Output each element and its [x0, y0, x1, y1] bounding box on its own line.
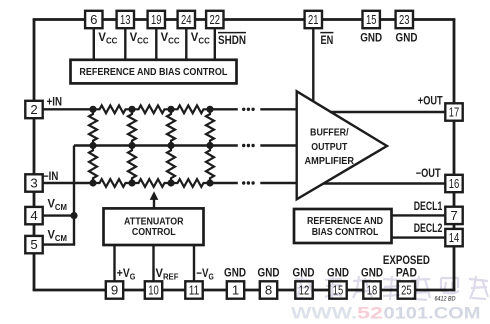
wire attenuator to pin 11: [193, 245, 195, 290]
svg-text:DECL2: DECL2: [414, 222, 443, 235]
pin 19 (top): [148, 11, 165, 28]
wire pin 19 to reference box: [155, 20, 157, 61]
svg-text:7: 7: [450, 208, 457, 223]
wire pin 4 VCM: [34, 214, 74, 216]
svg-text:VCC: VCC: [191, 30, 210, 46]
node middle row col3: [167, 142, 174, 149]
label SHDN: [218, 33, 246, 47]
wire top row into amplifier: [260, 108, 296, 110]
resistor R3 (top row): [171, 105, 210, 113]
svg-text:52: 52: [357, 305, 383, 323]
pin 13 (top): [117, 11, 134, 28]
svg-text:CONTROL: CONTROL: [132, 227, 176, 238]
wire -OUT: [323, 182, 454, 184]
svg-text:9: 9: [111, 282, 118, 297]
wire middle row: [74, 144, 238, 146]
wire pin 21 EN to amplifier: [312, 20, 314, 103]
svg-text:GND: GND: [258, 267, 280, 280]
node middle row col4: [206, 142, 213, 149]
pin 21 (top): [305, 11, 322, 28]
resistor R4 (bottom row): [93, 179, 132, 187]
svg-text:VCC: VCC: [98, 30, 117, 46]
label EXPOSED PAD: [383, 254, 430, 280]
wire +OUT: [330, 111, 454, 113]
svg-text:13: 13: [120, 12, 131, 27]
block bottom reference label: [307, 216, 383, 238]
resistor R12 (lower ladder leg): [128, 146, 136, 184]
svg-text:23: 23: [399, 12, 410, 27]
op-amp U1 label: [305, 128, 355, 168]
wire DECL1: [392, 214, 455, 216]
resistor R14 (lower ladder leg): [206, 146, 214, 184]
wire right bus: [453, 20, 456, 291]
svg-text:3: 3: [30, 175, 37, 190]
pin 24 (top): [178, 11, 195, 28]
svg-text:−IN: −IN: [43, 170, 58, 183]
wire top bus: [33, 18, 456, 21]
pin 2 (left): [25, 101, 42, 118]
wire attenuator to pin 9: [113, 245, 115, 290]
pin 15 (top): [363, 11, 380, 28]
watermark url: [291, 305, 481, 323]
svg-text:−OUT: −OUT: [416, 167, 441, 180]
node bottom row col3: [167, 179, 174, 186]
pin 22 (top): [206, 11, 223, 28]
svg-text:21: 21: [308, 12, 319, 27]
svg-text:VCC: VCC: [161, 30, 180, 46]
node ellipsis middle row: [242, 144, 255, 147]
pin 23 (top): [396, 11, 413, 28]
resistor R10 (upper ladder leg): [206, 109, 214, 145]
node ellipsis top row: [242, 108, 255, 111]
wire bottom row into amplifier: [260, 182, 296, 184]
svg-text:24: 24: [181, 12, 192, 27]
svg-text:4: 4: [30, 208, 37, 223]
watermark chinese characters: [295, 276, 488, 300]
resistor R8 (upper ladder leg): [128, 109, 136, 145]
pin 25 (bottom): [398, 281, 415, 298]
wire pin 13 to reference box: [124, 20, 126, 61]
svg-text:VCM: VCM: [48, 197, 68, 213]
svg-text:+OUT: +OUT: [418, 94, 443, 107]
wire DECL2: [392, 236, 455, 238]
node top row col2: [128, 106, 135, 113]
svg-text:PAD: PAD: [396, 267, 417, 280]
svg-text:19: 19: [151, 12, 162, 27]
wire pin 6 to reference box: [93, 20, 95, 61]
node top row col4: [206, 106, 213, 113]
node bottom row col4: [206, 179, 213, 186]
svg-text:11: 11: [189, 282, 200, 297]
svg-text:GND: GND: [327, 267, 349, 280]
resistor R13 (lower ladder leg): [167, 146, 175, 184]
resistor R2 (top row): [132, 105, 171, 113]
block attenuator control: [104, 208, 204, 245]
pin 5 (left): [25, 236, 42, 253]
wire middle row into amplifier: [260, 144, 296, 146]
block reference and bias control (bottom): [294, 209, 392, 243]
resistor R7 (upper ladder leg): [89, 109, 97, 145]
svg-text:VCC: VCC: [130, 30, 149, 46]
pin 11 (bottom): [185, 281, 202, 298]
pin 3 (left): [25, 174, 42, 191]
node top row col1: [89, 106, 96, 113]
svg-text:REFERENCE AND: REFERENCE AND: [307, 216, 383, 227]
node middle row col1: [89, 142, 96, 149]
svg-text:VREF: VREF: [156, 266, 179, 282]
svg-text:GND: GND: [224, 267, 246, 280]
svg-text:−VG: −VG: [196, 266, 214, 282]
resistor R9 (upper ladder leg): [167, 109, 175, 145]
svg-text:GND: GND: [396, 31, 418, 44]
pin 15 (bottom): [329, 281, 346, 298]
wire left bus: [33, 20, 36, 291]
svg-text:BUFFER/: BUFFER/: [310, 128, 349, 139]
resistor R11 (lower ladder leg): [89, 146, 97, 184]
svg-text:22: 22: [210, 12, 221, 27]
block reference and bias control (top): [71, 60, 237, 84]
svg-text:AMPLIFIER: AMPLIFIER: [305, 156, 355, 167]
svg-text:5: 5: [30, 237, 37, 252]
svg-text:BIAS CONTROL: BIAS CONTROL: [312, 227, 379, 238]
svg-text:25: 25: [401, 282, 412, 297]
svg-text:EN: EN: [321, 34, 334, 47]
svg-text:2: 2: [30, 102, 37, 117]
pin 10 (bottom): [145, 281, 162, 298]
svg-text:6: 6: [90, 12, 97, 27]
svg-text:17: 17: [449, 104, 460, 119]
svg-text:DECL1: DECL1: [414, 200, 443, 213]
pin 14 (right): [445, 229, 462, 246]
pin 4 (left): [25, 207, 42, 224]
svg-text:REFERENCE AND BIAS CONTROL: REFERENCE AND BIAS CONTROL: [79, 67, 227, 78]
resistor R6 (bottom row): [171, 179, 210, 187]
pin 8 (bottom): [260, 281, 277, 298]
svg-text:15: 15: [366, 12, 377, 27]
wire +IN row: [34, 108, 93, 110]
resistor R5 (bottom row): [132, 179, 171, 187]
wire pin 24 to reference box: [185, 20, 187, 61]
svg-text:WWW.: WWW.: [291, 305, 357, 323]
resistor R1 (top row): [93, 105, 132, 113]
wire -IN row: [34, 182, 93, 184]
wire bottom row to ellipsis: [210, 182, 238, 184]
wire bottom bus: [33, 289, 456, 292]
wire attenuator to pin 10: [152, 245, 154, 290]
svg-text:OUTPUT: OUTPUT: [311, 142, 347, 153]
pin 7 (right): [445, 207, 462, 224]
svg-text:ATTENUATOR: ATTENUATOR: [124, 217, 184, 228]
svg-text:GND: GND: [293, 267, 315, 280]
svg-text:16: 16: [449, 176, 460, 191]
svg-text:GND: GND: [360, 31, 382, 44]
pin 18 (bottom): [363, 281, 380, 298]
label EN: [320, 33, 333, 47]
node bottom row col1: [89, 179, 96, 186]
svg-text:10: 10: [148, 282, 159, 297]
pin 12 (bottom): [295, 281, 312, 298]
wire pin 22 to reference box: [214, 20, 216, 61]
node top row col3: [167, 106, 174, 113]
pin 1 (bottom): [227, 281, 244, 298]
pin 16 (right): [445, 175, 462, 192]
node VCM junction: [70, 212, 77, 219]
wire top row to ellipsis: [210, 108, 238, 110]
block attenuator label: [124, 217, 184, 239]
svg-text:GND: GND: [361, 267, 383, 280]
svg-text:1: 1: [232, 282, 239, 297]
svg-text:0101.COM: 0101.COM: [384, 305, 481, 323]
op-amp U1 buffer/output amplifier: [297, 91, 387, 199]
svg-text:14: 14: [449, 230, 460, 245]
node ellipsis bottom row: [242, 181, 255, 184]
pin 6 (top): [85, 11, 102, 28]
pin 17 (right): [445, 103, 462, 120]
svg-text:SHDN: SHDN: [218, 34, 246, 47]
wire attenuator wiper arrow: [150, 191, 159, 208]
svg-text:EXPOSED: EXPOSED: [383, 254, 430, 267]
pin 9 (bottom): [106, 281, 123, 298]
node bottom row col2: [128, 179, 135, 186]
svg-text:+VG: +VG: [117, 266, 136, 282]
node middle row col2: [128, 142, 135, 149]
wire VCM vertical: [73, 146, 75, 245]
svg-text:8: 8: [265, 282, 272, 297]
svg-text:VCM: VCM: [48, 227, 68, 243]
svg-text:6412 BD: 6412 BD: [435, 296, 456, 303]
svg-text:+IN: +IN: [47, 95, 62, 108]
wire pin 5 VCM: [34, 243, 75, 245]
